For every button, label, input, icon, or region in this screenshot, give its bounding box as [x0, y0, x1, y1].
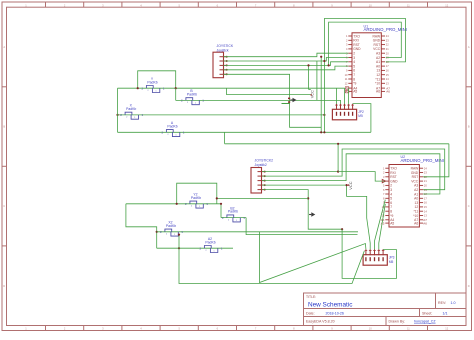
pushpad Y2 — [185, 201, 208, 208]
wire Y lead to JP2 pin3 — [118, 88, 345, 104]
svg-text:Joystick: Joystick — [217, 48, 229, 52]
junction x321 bottom — [320, 131, 322, 133]
svg-text:C: C — [3, 204, 5, 208]
wire A2 lead — [157, 247, 233, 249]
svg-text:D: D — [3, 284, 5, 288]
junction X left — [116, 114, 118, 116]
power flag VCC bottom — [348, 181, 353, 189]
junction loop inner jw3row — [328, 64, 330, 66]
title block REV — [438, 301, 456, 305]
wire branch y198 — [217, 197, 308, 199]
svg-text:Joystik2: Joystik2 — [255, 163, 267, 167]
net flag arrow U2 VCC — [382, 179, 385, 182]
svg-text:PadKb: PadKb — [166, 224, 176, 228]
svg-text:Date:: Date: — [306, 311, 315, 315]
svg-text:D: D — [468, 284, 470, 288]
junction X2 left — [156, 231, 158, 233]
label B PadKb — [187, 89, 197, 96]
junction x321 top — [320, 56, 322, 58]
wire jw row3 VCC drop — [309, 65, 311, 89]
wire diag X2 to JP3 pin1 — [260, 232, 366, 283]
svg-text:B: B — [3, 125, 5, 129]
label U1 ARDUINO_PRO_MINI — [364, 24, 407, 32]
wire joystick1 pin1 to U1 pin2 — [224, 53, 349, 57]
net label A7 (U2 pin A7) — [423, 218, 427, 222]
pushpad X — [120, 112, 143, 119]
wire X2 lead — [157, 231, 358, 233]
wire U2 loop inner — [262, 154, 440, 194]
svg-text:TITLE:: TITLE: — [306, 295, 316, 299]
wire B2 lead — [221, 217, 246, 219]
wire jw2 row1 to U2 VCC — [338, 172, 385, 182]
wire U2 loop outer right — [423, 144, 449, 177]
svg-text:A: A — [3, 45, 5, 49]
svg-text:A5: A5 — [381, 221, 385, 225]
svg-text:honzapat_CZ: honzapat_CZ — [414, 320, 436, 324]
svg-text:A6: A6 — [414, 221, 418, 225]
svg-text:*10: *10 — [375, 82, 380, 86]
wire B lead to JP2 pin2 — [176, 100, 341, 104]
svg-text:Sheet:: Sheet: — [422, 311, 432, 315]
svg-text:ARDUINO_PRO_MINI: ARDUINO_PRO_MINI — [401, 158, 444, 163]
svg-text:1.0: 1.0 — [451, 301, 456, 305]
label X PadKb — [126, 104, 136, 111]
pushpad B — [181, 98, 204, 105]
wire Y2 lead — [126, 203, 221, 205]
svg-text:VCC: VCC — [310, 90, 315, 98]
title block EasyEDA version — [306, 320, 335, 324]
wire JP3 enclosure — [342, 229, 396, 278]
arduino U1 — [345, 33, 390, 98]
svg-text:A6: A6 — [376, 90, 380, 94]
pushpad Y — [142, 86, 165, 93]
net port arrow bottom — [309, 212, 315, 217]
svg-text:PadKb: PadKb — [167, 124, 177, 128]
wire Y bypass loop — [138, 71, 176, 88]
label JP2 — [358, 110, 364, 118]
junction jw2 row1 — [337, 171, 339, 173]
svg-text:M5: M5 — [358, 114, 363, 118]
wire joystick1 pin2 to U1 pin3 — [224, 58, 349, 62]
svg-text:PadKb: PadKb — [191, 196, 201, 200]
wire B2 riser — [220, 204, 222, 218]
wire joystick1 pin5 drop — [224, 74, 322, 127]
svg-text:EasyEDA V5.8.20: EasyEDA V5.8.20 — [306, 320, 335, 324]
label Y PadKb — [147, 77, 157, 84]
title block TITLE label — [306, 295, 316, 299]
junction Y left — [137, 87, 139, 89]
svg-text:PadKb: PadKb — [126, 107, 136, 111]
svg-text:C: C — [468, 204, 470, 208]
wire VCC branch — [227, 88, 311, 94]
net label A6 (U2 pin A6) — [423, 221, 427, 225]
net label A4 (U2 pin A4) — [381, 218, 385, 222]
svg-text:PadKb: PadKb — [205, 240, 215, 244]
net label A5 (U1 pin A5) — [345, 90, 349, 94]
wire A branch riser — [224, 132, 226, 144]
wire vertical x317 — [316, 61, 318, 100]
svg-text:2018-10-26: 2018-10-26 — [326, 311, 344, 315]
label X2 PadKb — [166, 221, 176, 228]
wire crossing vertical x321 — [320, 57, 322, 133]
svg-text:New Schematic: New Schematic — [308, 301, 353, 308]
wire U1 loop outer — [324, 19, 405, 133]
label A2 PadKb — [205, 237, 215, 244]
svg-text:A5: A5 — [353, 90, 357, 94]
title block Drawn By — [389, 320, 437, 324]
title block frame — [304, 293, 467, 326]
title block Sheet — [422, 311, 448, 315]
wire joystick1 pin4 to U1 pin5 — [224, 66, 349, 70]
svg-text:*9: *9 — [353, 82, 356, 86]
svg-text:B: B — [468, 125, 470, 129]
label JOYSTICK1 — [217, 44, 234, 52]
wire U2 pin5 to JP3 pin3 — [375, 200, 386, 250]
svg-text:A6: A6 — [386, 90, 390, 94]
joystick connector JOYSTICK2 — [251, 168, 266, 194]
label B2 PadKb — [228, 206, 238, 213]
wire X lead — [118, 114, 325, 116]
pushpad A2 — [200, 246, 223, 253]
wire U2 pin6 to JP3 pin4 — [379, 204, 386, 249]
power flag VCC top — [310, 90, 315, 98]
header JP3 — [363, 249, 387, 265]
svg-text:A: A — [468, 45, 470, 49]
wire U2 loop mid — [262, 149, 445, 190]
wire Y2 left drop — [126, 204, 157, 248]
junction B2 top — [220, 203, 222, 205]
svg-text:A6: A6 — [423, 221, 427, 225]
junction X right — [323, 114, 325, 116]
wire bus A — [225, 143, 449, 145]
svg-text:A5: A5 — [390, 221, 394, 225]
header JP2 — [332, 104, 356, 120]
junction Y2 left — [176, 203, 178, 205]
junction A2 riser top — [178, 234, 180, 236]
svg-text:PadKb: PadKb — [228, 210, 238, 214]
joystick connector JOYSTICK1 — [213, 52, 228, 77]
junction enclosure top — [341, 228, 343, 230]
title block title text — [308, 301, 353, 308]
wire Y2 bypass loop — [177, 183, 217, 204]
net label A6 (U1 pin A6) — [386, 90, 390, 94]
wire joystick1 pin3 to U1 pin4 — [224, 62, 349, 66]
junction A2 left — [178, 247, 180, 249]
pushpad X2 — [160, 229, 183, 236]
label JOYSTICK2 — [255, 159, 274, 167]
net label A7 (U1 pin A7) — [386, 86, 390, 90]
label A PadKb — [167, 121, 177, 128]
svg-text:PadKb: PadKb — [187, 93, 197, 97]
net label A6 (U1 pin A4) — [345, 86, 349, 90]
net port arrow top — [282, 98, 297, 104]
wire B riser — [175, 88, 177, 100]
svg-text:REV:: REV: — [438, 301, 446, 305]
wire left bus vertical — [117, 88, 119, 132]
wire bottom rail — [179, 248, 364, 283]
wire A lead — [118, 131, 371, 133]
svg-text:JOYSTICK2: JOYSTICK2 — [255, 159, 274, 163]
svg-text:1/1: 1/1 — [443, 311, 448, 315]
junction loop outer jw2row — [323, 60, 325, 62]
wire JP2 pin1 riser — [336, 88, 338, 104]
label U2 ARDUINO_PRO_MINI — [401, 155, 444, 163]
svg-text:JOYSTICK: JOYSTICK — [217, 44, 234, 48]
svg-text:Drawn By:: Drawn By: — [389, 320, 406, 324]
label JP3 — [389, 256, 395, 264]
svg-text:PadKb: PadKb — [147, 80, 157, 84]
pushpad B2 — [222, 215, 245, 222]
wire A2 riser to B2 line — [178, 235, 180, 249]
net label A5 (U2 pin A5) — [381, 221, 385, 225]
junction loop outer Alead — [323, 131, 325, 133]
wire joystick2 pin4 path — [262, 185, 370, 249]
junction Y right — [175, 87, 177, 89]
wire U1 loop inner — [329, 22, 402, 65]
junction bus A x338 — [337, 143, 339, 145]
svg-text:M5: M5 — [389, 260, 394, 264]
junction jw2 row5 tee — [307, 197, 309, 199]
junction Y2 loop tee — [216, 197, 218, 199]
pushpad A — [162, 130, 185, 137]
svg-text:ARDUINO_PRO_MINI: ARDUINO_PRO_MINI — [364, 27, 407, 32]
wire joystick2 pin5 path — [262, 190, 342, 230]
wire JP2 pin4 riser — [348, 88, 350, 104]
wire B2 drop — [246, 218, 357, 235]
label Y2 PadKb — [191, 193, 201, 200]
wire A wrap to JP2 pin5 — [353, 104, 371, 133]
title block Date — [306, 311, 344, 315]
junction jw row3 tap — [307, 64, 309, 66]
wire joystick2 pin1 riser — [262, 144, 338, 172]
junction jw2 row4 — [346, 184, 348, 186]
arduino U2 — [382, 165, 428, 228]
